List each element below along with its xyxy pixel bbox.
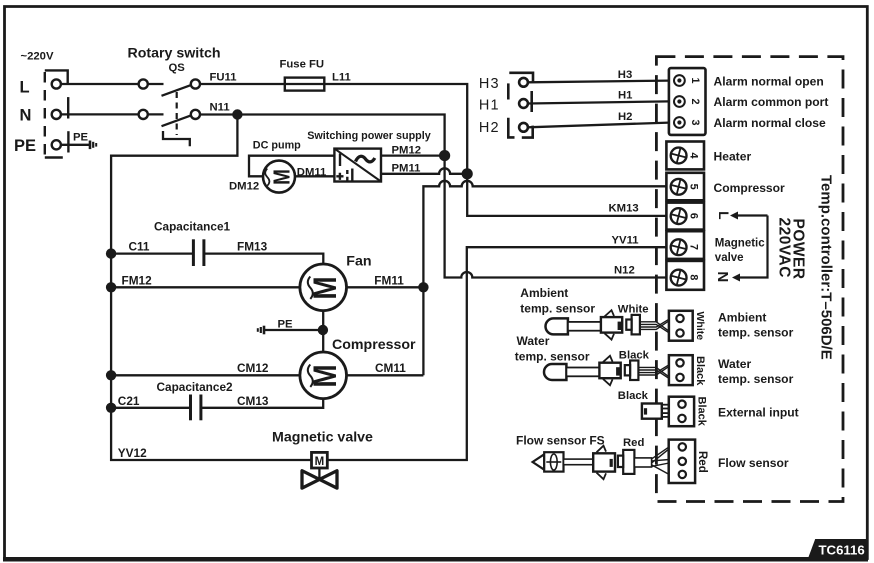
svg-text:M: M bbox=[308, 276, 343, 299]
svg-text:H2: H2 bbox=[618, 111, 632, 123]
svg-text:PE: PE bbox=[14, 137, 36, 155]
svg-text:Water: Water bbox=[517, 334, 550, 348]
svg-text:FU11: FU11 bbox=[210, 71, 237, 83]
svg-text:H1: H1 bbox=[479, 97, 500, 113]
svg-text:Flow sensor FS: Flow sensor FS bbox=[516, 434, 605, 448]
svg-text:8: 8 bbox=[688, 274, 700, 280]
svg-text:H3: H3 bbox=[618, 69, 632, 81]
svg-text:C11: C11 bbox=[129, 240, 150, 254]
svg-text:H2: H2 bbox=[479, 120, 500, 136]
svg-text:PE: PE bbox=[73, 132, 89, 144]
svg-text:N11: N11 bbox=[210, 102, 230, 114]
svg-text:CM11: CM11 bbox=[375, 361, 406, 375]
svg-text:Water: Water bbox=[718, 357, 751, 371]
svg-text:N: N bbox=[714, 271, 731, 282]
svg-text:Capacitance2: Capacitance2 bbox=[157, 380, 234, 394]
svg-text:PM11: PM11 bbox=[392, 163, 421, 175]
svg-text:QS: QS bbox=[169, 62, 186, 74]
svg-text:7: 7 bbox=[688, 244, 700, 250]
svg-text:FM12: FM12 bbox=[122, 273, 153, 287]
svg-text:N12: N12 bbox=[614, 265, 635, 277]
svg-text:M: M bbox=[308, 364, 343, 387]
svg-text:Fan: Fan bbox=[346, 253, 371, 269]
svg-text:KM13: KM13 bbox=[609, 203, 639, 215]
svg-text:temp. sensor: temp. sensor bbox=[718, 372, 794, 386]
svg-text:Capacitance1: Capacitance1 bbox=[154, 220, 231, 234]
svg-text:Compressor: Compressor bbox=[714, 181, 786, 195]
svg-text:6: 6 bbox=[688, 213, 700, 219]
svg-text:3: 3 bbox=[689, 120, 701, 126]
svg-text:temp. sensor: temp. sensor bbox=[520, 301, 595, 315]
svg-text:Red: Red bbox=[623, 437, 644, 449]
svg-text:TC6116: TC6116 bbox=[819, 543, 865, 558]
svg-text:Black: Black bbox=[618, 390, 649, 402]
svg-text:Compressor: Compressor bbox=[332, 337, 416, 353]
svg-text:4: 4 bbox=[688, 153, 700, 159]
svg-text:Alarm normal open: Alarm normal open bbox=[714, 74, 824, 88]
svg-text:Black: Black bbox=[694, 356, 706, 386]
svg-text:Ambient: Ambient bbox=[718, 311, 766, 325]
svg-text:PM12: PM12 bbox=[392, 144, 422, 156]
svg-text:220VAC: 220VAC bbox=[776, 218, 793, 278]
svg-text:YV12: YV12 bbox=[118, 446, 147, 460]
svg-text:temp. sensor: temp. sensor bbox=[718, 326, 794, 340]
svg-text:FM13: FM13 bbox=[237, 240, 268, 254]
svg-text:Magnetic valve: Magnetic valve bbox=[272, 429, 373, 445]
svg-text:Rotary switch: Rotary switch bbox=[128, 45, 221, 61]
svg-text:H1: H1 bbox=[618, 90, 632, 102]
svg-text:DM11: DM11 bbox=[297, 166, 327, 178]
svg-text:Ambient: Ambient bbox=[520, 286, 568, 300]
svg-text:N: N bbox=[20, 107, 32, 125]
svg-text:Temp.controller:T–506D/E: Temp.controller:T–506D/E bbox=[818, 175, 835, 360]
svg-text:CM13: CM13 bbox=[237, 394, 269, 408]
svg-text:Flow sensor: Flow sensor bbox=[718, 456, 789, 470]
svg-text:L11: L11 bbox=[332, 71, 351, 83]
svg-text:White: White bbox=[618, 304, 649, 316]
svg-text:M: M bbox=[315, 456, 325, 468]
svg-text:C21: C21 bbox=[118, 394, 140, 408]
svg-text:DM12: DM12 bbox=[229, 181, 259, 193]
svg-text:Black: Black bbox=[696, 397, 708, 427]
svg-text:Heater: Heater bbox=[714, 150, 752, 164]
svg-text:External input: External input bbox=[718, 405, 799, 419]
svg-text:Magnetic: Magnetic bbox=[715, 238, 765, 250]
svg-text:Red: Red bbox=[696, 451, 708, 473]
svg-text:1: 1 bbox=[689, 78, 701, 84]
svg-text:L: L bbox=[716, 211, 731, 219]
svg-text:Alarm common port: Alarm common port bbox=[714, 95, 829, 109]
svg-text:M: M bbox=[270, 169, 295, 185]
svg-text:~220V: ~220V bbox=[21, 51, 54, 63]
svg-text:L: L bbox=[20, 78, 30, 96]
svg-text:Fuse FU: Fuse FU bbox=[280, 58, 325, 70]
svg-text:valve: valve bbox=[715, 252, 744, 264]
svg-text:White: White bbox=[694, 312, 706, 341]
svg-text:5: 5 bbox=[688, 184, 700, 190]
svg-text:PE: PE bbox=[278, 319, 294, 331]
svg-text:H3: H3 bbox=[479, 76, 500, 92]
svg-text:DC pump: DC pump bbox=[253, 139, 301, 151]
svg-text:2: 2 bbox=[689, 99, 701, 105]
svg-text:CM12: CM12 bbox=[237, 361, 269, 375]
svg-text:Black: Black bbox=[619, 350, 650, 362]
svg-text:Alarm normal close: Alarm normal close bbox=[714, 116, 827, 130]
svg-text:FM11: FM11 bbox=[374, 273, 404, 287]
svg-text:Switching power supply: Switching power supply bbox=[307, 130, 431, 142]
svg-text:temp. sensor: temp. sensor bbox=[515, 350, 590, 364]
svg-text:YV11: YV11 bbox=[612, 235, 639, 247]
